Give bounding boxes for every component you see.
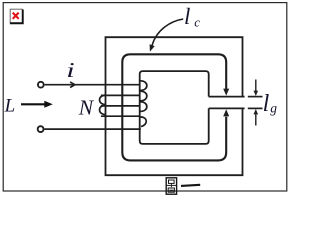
svg-text:l: l bbox=[184, 4, 190, 29]
svg-text:N: N bbox=[78, 95, 95, 119]
svg-text:g: g bbox=[270, 101, 277, 116]
svg-text:L: L bbox=[4, 95, 16, 116]
svg-text:c: c bbox=[194, 14, 200, 29]
svg-text:i: i bbox=[66, 59, 74, 82]
svg-text:l: l bbox=[263, 91, 270, 117]
